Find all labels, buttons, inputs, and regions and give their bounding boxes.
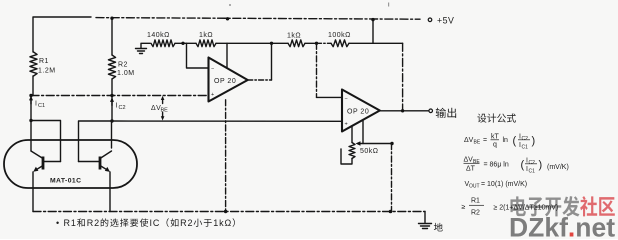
svg-text:=: = [483, 137, 487, 144]
wire: stub to OP1 top edge [226, 43, 228, 67]
wire: Q1 collector up to IC1 node [30, 96, 32, 152]
ground rail dash-dot [33, 211, 425, 213]
svg-text:= 10(1) (mV/K): = 10(1) (mV/K) [481, 181, 527, 188]
svg-text:R2: R2 [471, 210, 480, 217]
wire: Q2 collector [111, 121, 113, 148]
svg-text:BE: BE [473, 159, 480, 165]
node: rail junction above 100k [371, 18, 374, 21]
wire [349, 42, 403, 44]
svg-text:50kΩ: 50kΩ [360, 148, 379, 155]
wire: node to OP1 inverting input [187, 43, 209, 68]
node: R1 bottom IC1 [29, 94, 32, 97]
resistor R2 1.0M [111, 18, 113, 55]
wire: OP1 V- to ground rail dash-dot [225, 100, 227, 212]
svg-text:C1: C1 [38, 103, 45, 109]
resistor R1 1.2M [30, 52, 37, 76]
terminal: output [429, 109, 433, 113]
svg-text:R2: R2 [180, 218, 193, 228]
wire: base row to OP2 + input [112, 120, 342, 122]
node: on ground rail [224, 210, 227, 213]
svg-text:(: ( [521, 159, 525, 171]
op-amp U2 OP-20 [342, 90, 380, 132]
wire: wiper to ground rail dash-dot [391, 144, 393, 212]
node: OP1 inverting input junction [181, 42, 184, 45]
wire dashed [317, 42, 332, 44]
wire: R1 top to +5V rail corner [33, 17, 91, 52]
svg-text:≥: ≥ [462, 204, 466, 211]
svg-text:+: + [211, 92, 214, 98]
node: rail junction at R2 [110, 17, 113, 20]
svg-text:1kΩ: 1kΩ [199, 32, 213, 39]
wire: Q2 base jog [79, 121, 112, 162]
node: rail junction at wiper [389, 210, 393, 214]
node: wiper corner [390, 142, 393, 145]
svg-text:1.0M: 1.0M [117, 70, 135, 77]
terminal: +5V [428, 18, 432, 22]
current arrow IC1 [30, 98, 32, 104]
svg-text:C1: C1 [522, 145, 529, 151]
svg-text:R1: R1 [39, 58, 49, 65]
node: rail junction above OP1 [226, 17, 229, 20]
op-amp U1 OP-20 [209, 58, 248, 102]
svg-text:1kΩ: 1kΩ [213, 218, 232, 228]
node: output feedback junction [401, 109, 404, 112]
svg-text:): ) [539, 159, 543, 171]
label: output (shu chu) [436, 108, 446, 118]
svg-text:OP 20: OP 20 [214, 78, 236, 85]
package outline MAT-01C stadium [4, 140, 137, 188]
transistor Q2 MAT-01 right [99, 157, 102, 170]
wire: OP2 inverting input vertical dash-dot [316, 43, 318, 97]
ground symbol bottom right [424, 212, 426, 223]
svg-text:IC: IC [150, 218, 161, 228]
svg-text:• R1: • R1 [56, 218, 77, 228]
node: Q1 collector-base tie [29, 119, 32, 122]
resistor 1k feedback A [196, 40, 216, 47]
svg-text:1.2M: 1.2M [38, 68, 56, 75]
resistor 1k to OP2 [288, 40, 305, 47]
svg-text:R2: R2 [118, 62, 128, 69]
node: OP1 output feedback junction [270, 42, 273, 45]
node: OP2 inverting input junction [315, 42, 318, 45]
wire: feedback vertical [271, 43, 273, 80]
wire: OP2 output [380, 110, 429, 112]
watermark shequ (red) [580, 196, 597, 216]
wire: OP1 output dash-dot [248, 79, 272, 81]
svg-text:ΔT: ΔT [466, 166, 476, 173]
wire: Q2 emitter to ground rail [109, 172, 111, 212]
svg-text:C2: C2 [522, 136, 529, 142]
resistor 140k [151, 40, 175, 47]
resistor 100k OP2 feedback [331, 40, 349, 47]
svg-text:ln: ln [503, 137, 509, 144]
svg-text:OUT: OUT [469, 184, 480, 190]
wire [175, 42, 196, 44]
svg-text:100kΩ: 100kΩ [328, 32, 351, 39]
svg-text:−: − [345, 97, 348, 103]
label: ground (di) [434, 223, 443, 232]
svg-text:R1: R1 [471, 198, 480, 205]
node: R2 crossing [110, 94, 113, 97]
ground: left of 140k [141, 43, 150, 48]
svg-text:1kΩ: 1kΩ [287, 33, 301, 40]
svg-text:R2: R2 [87, 218, 100, 228]
wire: Q1 emitter to ground rail [32, 172, 34, 212]
svg-text:140kΩ: 140kΩ [147, 32, 170, 39]
svg-text:OP 20: OP 20 [347, 109, 369, 116]
svg-text:(mV/K): (mV/K) [547, 164, 569, 171]
svg-text:ΔV: ΔV [464, 137, 474, 144]
svg-text:+: + [345, 122, 348, 128]
node: Q2 tie row junction [110, 119, 113, 122]
svg-text:C1: C1 [529, 169, 536, 175]
svg-text:DZkf.net: DZkf.net [509, 213, 615, 240]
svg-text:C2: C2 [119, 105, 126, 111]
svg-text:ΔV: ΔV [464, 157, 474, 164]
wire: +5V stub above 100k [372, 20, 374, 44]
delta VBE dimension marker [162, 99, 164, 104]
svg-text:−: − [211, 67, 214, 73]
svg-text:+5V: +5V [437, 16, 454, 26]
svg-text:): ) [532, 135, 536, 147]
svg-text:= 86μ ln: = 86μ ln [484, 162, 509, 169]
potentiometer 50k offset null [351, 126, 353, 143]
wire: +5V top rail (dash-dot) [96, 18, 420, 20]
svg-text:≥ 2(1+ΔV/ΔT≥10mV): ≥ 2(1+ΔV/ΔT≥10mV) [494, 205, 559, 212]
svg-text:BE: BE [161, 108, 169, 114]
transistor Q1 MAT-01 left [42, 157, 45, 170]
wire [216, 42, 288, 44]
svg-text:q: q [493, 142, 497, 149]
watermark dianzikaifa (gray) [510, 196, 525, 216]
wire [305, 42, 317, 44]
current arrow IC2 [111, 100, 113, 106]
wire: feedback corner down to output (dash-dot) [402, 43, 404, 111]
wire: IC1 row to OP1 + input dash-dot [31, 95, 209, 97]
svg-text:MAT-01C: MAT-01C [50, 178, 81, 185]
svg-text:(: ( [513, 135, 517, 147]
svg-text:C2: C2 [529, 160, 536, 166]
heading: design formulas [477, 114, 486, 123]
wire: Q1 diode jog [31, 121, 61, 162]
svg-text:BE: BE [474, 140, 481, 146]
